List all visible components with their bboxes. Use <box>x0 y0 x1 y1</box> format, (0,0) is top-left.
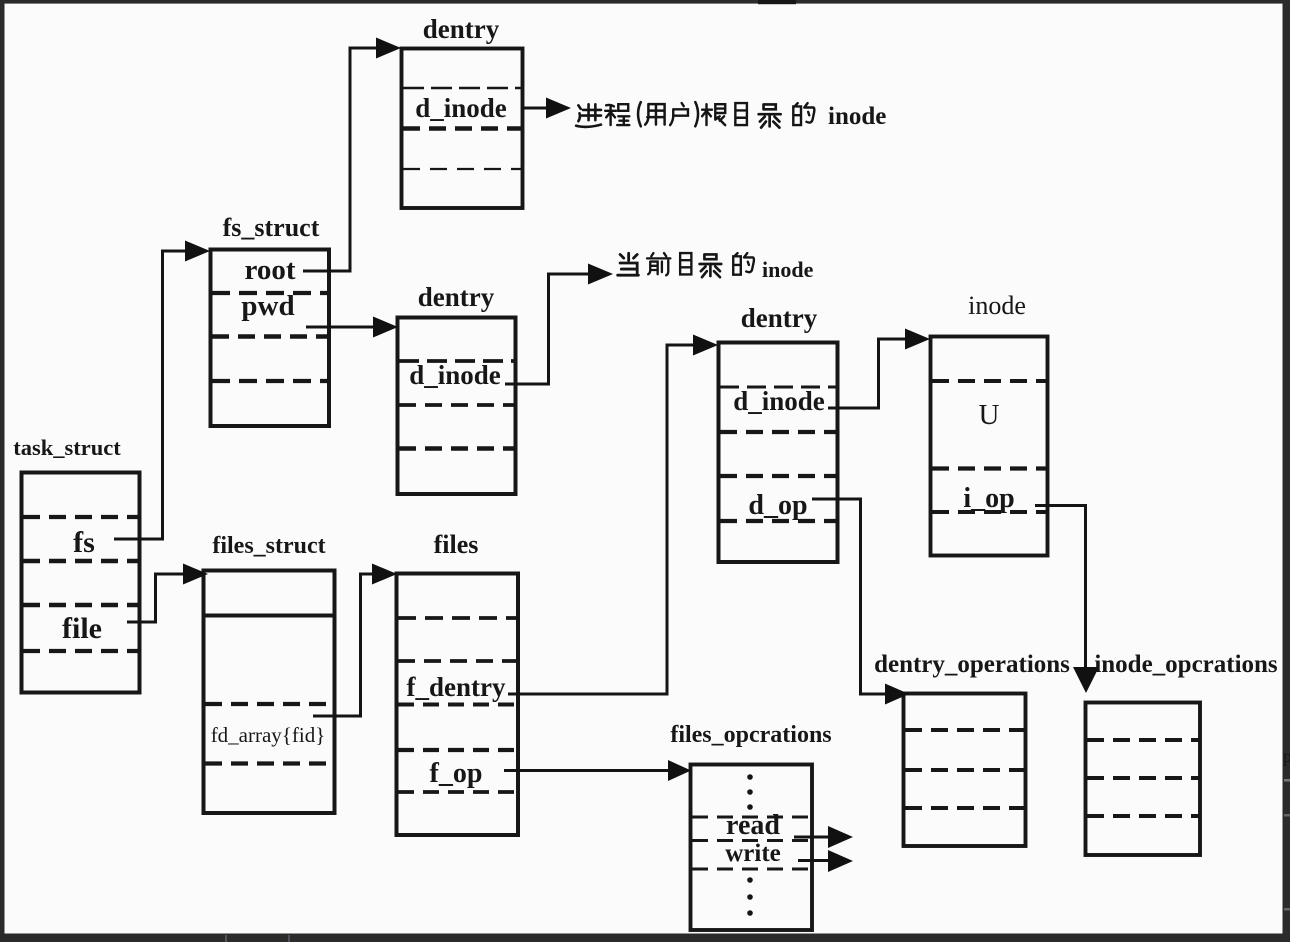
char ( <box>638 102 641 126</box>
box files_operations <box>691 765 813 931</box>
box inode_operations <box>1086 703 1201 856</box>
files divider 3 <box>398 703 516 707</box>
task_struct divider 4 <box>23 649 138 653</box>
arrowhead into fs_struct <box>185 241 210 262</box>
char 用 <box>645 104 664 125</box>
wire d_op to dentry_operations <box>812 499 886 694</box>
files divider 2 <box>398 659 516 663</box>
char ) <box>695 102 698 126</box>
frame top bar <box>0 0 1290 4</box>
svg-text:root: root <box>244 254 295 286</box>
right bar faint dash 3 <box>1284 908 1290 911</box>
task_struct divider 2 <box>23 559 138 563</box>
task_struct divider 1 <box>23 515 138 519</box>
svg-text:inode: inode <box>828 103 886 130</box>
svg-text:inode: inode <box>762 257 814 282</box>
box dentry1 (top) <box>402 49 523 209</box>
inode_operations divider 1 <box>1087 738 1199 742</box>
svg-text:dentry: dentry <box>741 303 818 333</box>
files_operations divider 2 <box>692 839 810 842</box>
svg-text:files: files <box>434 530 479 559</box>
svg-text:f_dentry: f_dentry <box>407 672 506 702</box>
svg-text:file: file <box>62 612 102 645</box>
char 的 <box>793 103 814 125</box>
right bar faint dash 1 <box>1284 779 1290 782</box>
arrowhead into files_struct <box>183 564 208 585</box>
inode_operations divider 3 <box>1087 814 1199 818</box>
char 根 <box>702 104 725 125</box>
dentry3 divider 1 <box>720 386 836 389</box>
dentry1 divider 2 (heavy) <box>403 126 521 131</box>
svg-text:d_inode: d_inode <box>733 386 825 416</box>
files_operations divider 3 <box>692 868 810 871</box>
char 当 <box>618 253 639 275</box>
wire read out <box>794 836 829 839</box>
box files <box>397 574 519 836</box>
svg-text:dentry_operations: dentry_operations <box>874 651 1070 678</box>
arrowhead into inode <box>905 329 930 350</box>
svg-text:d_inode: d_inode <box>409 360 501 390</box>
dentry_operations divider 1 <box>905 728 1024 732</box>
char 录 <box>759 104 781 127</box>
arrowhead into dentry3 <box>693 335 718 356</box>
dentry3 divider 3 <box>720 474 836 478</box>
wire pwd to dentry2 <box>306 326 374 329</box>
svg-text:task_struct: task_struct <box>13 435 121 460</box>
frame bottom bar <box>0 934 1290 942</box>
dentry1 divider 3 <box>403 168 521 170</box>
char 目 <box>735 103 747 125</box>
wire write out <box>798 859 829 862</box>
svg-text:p: p <box>1283 746 1290 766</box>
inode divider 2 <box>932 466 1046 470</box>
svg-text:write: write <box>725 840 781 867</box>
char 户 <box>670 103 688 125</box>
svg-text:read: read <box>726 810 780 841</box>
wire d_inode1 to annotation1 <box>523 107 547 110</box>
char 录 <box>700 254 722 277</box>
annotation1: 进程(用户)根目录的 inode <box>576 102 886 130</box>
char 前 <box>647 253 670 275</box>
svg-text:fs_struct: fs_struct <box>223 213 320 242</box>
arrowhead annotation1 <box>546 98 571 119</box>
wire f_op to files_operations <box>504 769 669 772</box>
box task_struct <box>22 473 140 693</box>
svg-text:fs: fs <box>73 526 95 559</box>
svg-text:inode: inode <box>968 291 1026 320</box>
frame left bar <box>0 0 5 942</box>
arrowhead into files <box>372 564 397 585</box>
dentry2 divider 2 <box>399 403 514 407</box>
dentry2 divider 3 <box>399 446 514 450</box>
wire fd_array to files <box>313 574 373 716</box>
inode divider 3 <box>932 510 1046 514</box>
wire root to dentry1 <box>303 48 377 271</box>
char 进 <box>576 104 601 127</box>
top bar dark blob <box>758 0 796 4</box>
svg-text:files_opcrations: files_opcrations <box>670 722 831 748</box>
box fs_struct <box>211 250 330 427</box>
dentry_operations divider 3 <box>905 806 1024 810</box>
dentry3 divider 4 <box>720 519 836 523</box>
dentry_operations divider 2 <box>905 768 1024 772</box>
bottom bar light separator 2 <box>288 935 290 942</box>
wire file to files_struct <box>127 574 184 622</box>
arrowhead into files_operations <box>668 760 691 781</box>
arrowhead into inode_operations (down) <box>1073 667 1099 693</box>
dentry3 divider 2 <box>720 430 836 434</box>
files_struct divider 3 <box>205 761 333 765</box>
svg-text:d_inode: d_inode <box>415 93 507 123</box>
svg-text:pwd: pwd <box>241 290 294 322</box>
svg-text:dentry: dentry <box>418 282 495 312</box>
svg-text:U: U <box>979 399 1000 431</box>
inode_operations divider 2 <box>1087 776 1199 780</box>
fs_struct divider 2 <box>212 334 328 338</box>
char 的 <box>733 253 754 275</box>
arrowhead read out <box>828 826 853 848</box>
right bar faint dash 2 <box>1284 814 1290 817</box>
arrowhead into dentry_operations <box>885 684 909 705</box>
box dentry2 (middle) <box>398 318 516 495</box>
wire fs to fs_struct <box>114 251 186 539</box>
wire d_inode3 to inode <box>828 339 906 408</box>
files divider 1 <box>398 616 516 620</box>
arrowhead annotation2 <box>588 264 613 285</box>
files_struct divider 2 <box>205 702 333 706</box>
files_operations divider 1 <box>692 816 810 819</box>
wire d_inode2 to annotation2 <box>505 274 589 384</box>
wire i_op to inode_operations <box>1035 506 1086 669</box>
fs_struct divider 3 <box>212 379 328 383</box>
arrowhead into dentry2 <box>373 317 398 338</box>
box dentry_operations <box>904 694 1026 847</box>
dentry2 divider 1 <box>399 359 514 363</box>
inode divider 1 <box>932 379 1046 383</box>
files_struct solid divider <box>203 614 334 618</box>
svg-text:f_op: f_op <box>430 758 483 789</box>
dentry1 divider 1 <box>403 87 521 90</box>
svg-text:inode_opcrations: inode_opcrations <box>1094 651 1278 678</box>
box files_struct <box>204 571 335 814</box>
arrowhead into dentry1 <box>376 38 401 59</box>
files divider 5 <box>398 790 516 794</box>
box inode <box>931 337 1048 556</box>
wire f_dentry to dentry3 <box>508 345 694 694</box>
svg-text:fd_array{fid}: fd_array{fid} <box>211 723 326 747</box>
task_struct divider 3 <box>23 603 138 607</box>
svg-text:files_struct: files_struct <box>212 533 325 559</box>
svg-text:d_op: d_op <box>748 490 807 521</box>
annotation2: 当前目录的 inode <box>618 253 814 282</box>
char 目 <box>680 253 691 274</box>
arrowhead write out <box>828 850 853 872</box>
bottom bar light separator 1 <box>225 935 227 942</box>
files divider 4 <box>398 748 516 752</box>
files_operations dots column (bottom) <box>747 877 753 883</box>
frame right bar <box>1283 0 1290 942</box>
files_operations dots column (top) <box>747 774 753 916</box>
svg-text:dentry: dentry <box>423 14 500 44</box>
svg-text:i_op: i_op <box>963 483 1014 514</box>
box dentry3 (right) <box>719 343 838 563</box>
char 程 <box>605 104 629 125</box>
fs_struct divider 1 <box>212 291 328 295</box>
